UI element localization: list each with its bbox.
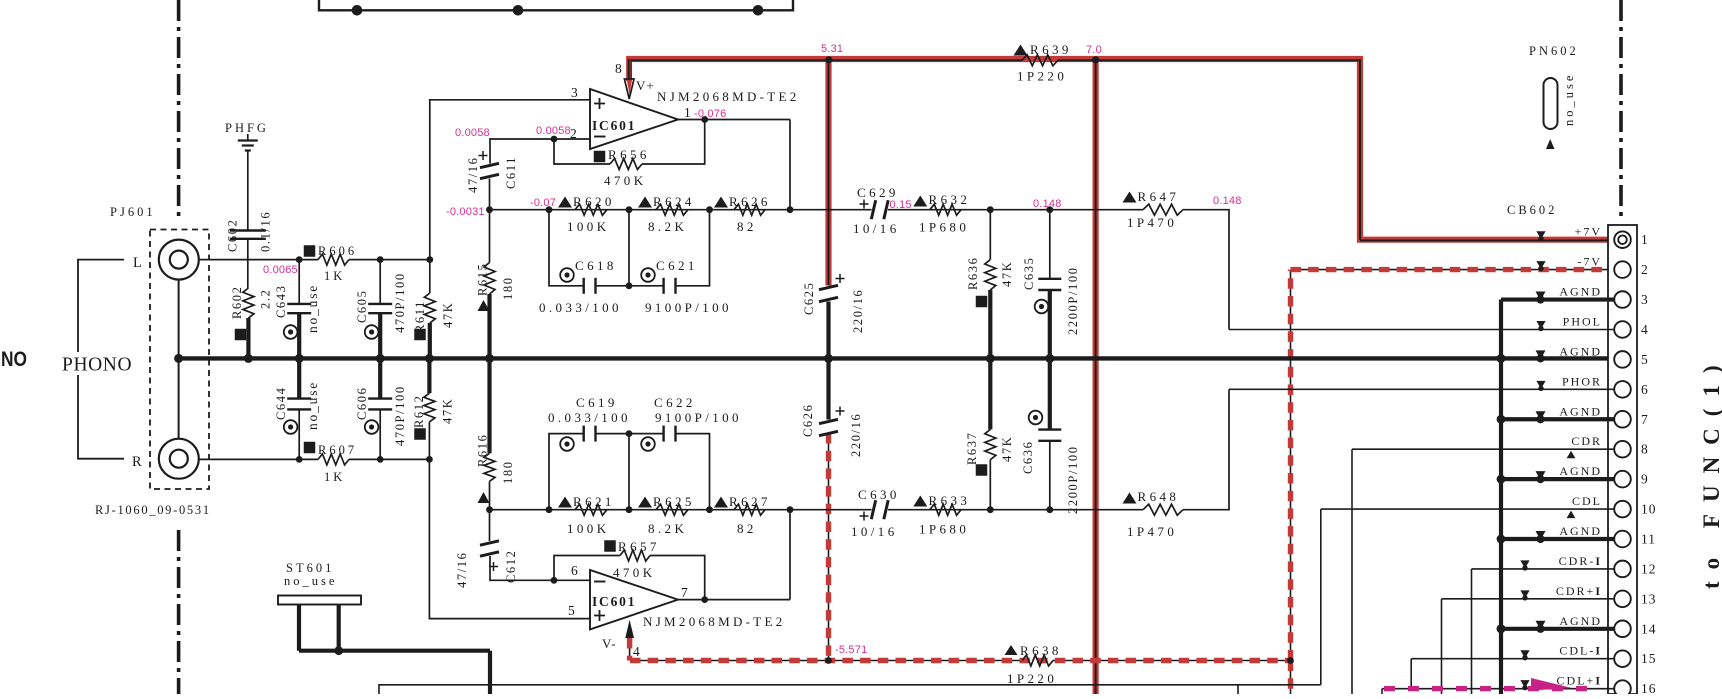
- svg-text:-0.0031: -0.0031: [446, 206, 485, 218]
- svg-text:PHFG: PHFG: [225, 121, 269, 135]
- svg-text:R606: R606: [318, 244, 357, 258]
- svg-text:220/16: 220/16: [849, 413, 863, 457]
- svg-text:0.15: 0.15: [890, 199, 912, 211]
- svg-text:1K: 1K: [324, 470, 345, 484]
- svg-text:V+: V+: [636, 78, 655, 93]
- svg-text:-0.076: -0.076: [694, 108, 726, 120]
- svg-text:10/16: 10/16: [853, 221, 900, 236]
- svg-text:R636: R636: [966, 257, 980, 291]
- svg-text:R657: R657: [618, 539, 660, 554]
- svg-text:-5.571: -5.571: [835, 644, 867, 656]
- svg-text:CDR: CDR: [1571, 434, 1602, 448]
- svg-text:6: 6: [571, 563, 578, 578]
- svg-text:13: 13: [1641, 591, 1657, 606]
- svg-text:C619: C619: [576, 395, 618, 410]
- svg-text:0.148: 0.148: [1213, 195, 1242, 207]
- svg-text:3: 3: [1641, 292, 1649, 307]
- svg-text:470K: 470K: [604, 173, 647, 188]
- svg-text:R632: R632: [929, 192, 971, 207]
- svg-text:C612: C612: [504, 550, 518, 584]
- svg-text:3: 3: [571, 85, 578, 100]
- svg-text:10: 10: [1641, 502, 1657, 517]
- svg-text:7: 7: [681, 585, 688, 600]
- svg-text:CDL+I: CDL+I: [1557, 674, 1602, 688]
- svg-text:C643: C643: [274, 285, 288, 319]
- svg-text:C611: C611: [504, 156, 518, 189]
- svg-text:1K: 1K: [324, 269, 345, 283]
- svg-text:1: 1: [1641, 232, 1649, 247]
- svg-text:AGND: AGND: [1559, 464, 1602, 478]
- svg-text:CDL-I: CDL-I: [1559, 644, 1602, 658]
- svg-text:R602: R602: [230, 286, 244, 320]
- svg-text:100K: 100K: [567, 219, 610, 234]
- svg-text:R612: R612: [412, 395, 426, 429]
- svg-text:R611: R611: [413, 300, 427, 333]
- svg-text:16: 16: [1641, 681, 1657, 694]
- svg-text:NJM2068MD-TE2: NJM2068MD-TE2: [657, 89, 800, 104]
- svg-text:2200P/100: 2200P/100: [1066, 266, 1080, 335]
- svg-text:IC601: IC601: [592, 594, 636, 609]
- svg-text:R616: R616: [476, 434, 490, 468]
- svg-text:C636: C636: [1021, 441, 1035, 475]
- svg-text:180: 180: [501, 276, 515, 300]
- svg-text:RJ-1060_09-0531: RJ-1060_09-0531: [95, 503, 211, 517]
- svg-text:R624: R624: [653, 194, 695, 209]
- svg-text:R656: R656: [608, 147, 650, 162]
- svg-text:8: 8: [1641, 442, 1649, 457]
- svg-text:2.2: 2.2: [259, 289, 273, 309]
- svg-text:ST601: ST601: [286, 561, 334, 575]
- svg-text:7.0: 7.0: [1086, 44, 1102, 56]
- svg-text:1P680: 1P680: [919, 522, 969, 537]
- svg-text:R607: R607: [318, 443, 357, 457]
- svg-text:1P470: 1P470: [1127, 524, 1177, 539]
- svg-text:C602: C602: [226, 219, 240, 253]
- svg-text:15: 15: [1641, 651, 1657, 666]
- svg-text:+7V: +7V: [1575, 225, 1602, 239]
- svg-text:C625: C625: [802, 282, 816, 316]
- svg-text:AGND: AGND: [1559, 404, 1602, 418]
- svg-text:AGND: AGND: [1559, 344, 1602, 358]
- svg-text:no_use: no_use: [1562, 73, 1576, 126]
- svg-text:10/16: 10/16: [851, 524, 898, 539]
- svg-text:0.0065: 0.0065: [263, 264, 298, 276]
- svg-text:C618: C618: [575, 258, 617, 273]
- svg-text:no_use: no_use: [305, 381, 320, 430]
- svg-text:PN602: PN602: [1529, 44, 1579, 58]
- svg-text:R637: R637: [965, 432, 979, 466]
- svg-text:R625: R625: [653, 494, 695, 509]
- svg-text:V-: V-: [602, 636, 617, 651]
- svg-text:47K: 47K: [1000, 436, 1014, 462]
- svg-text:470P/100: 470P/100: [393, 272, 407, 333]
- svg-text:0.1/16: 0.1/16: [259, 211, 273, 252]
- svg-text:R627: R627: [729, 494, 771, 509]
- svg-text:PHOL: PHOL: [1563, 314, 1602, 328]
- svg-text:-7V: -7V: [1577, 255, 1602, 269]
- svg-text:PJ601: PJ601: [110, 205, 156, 219]
- svg-text:82: 82: [737, 219, 757, 234]
- svg-text:R638: R638: [1020, 643, 1062, 658]
- svg-text:4: 4: [1641, 322, 1649, 337]
- svg-text:14: 14: [1641, 621, 1657, 636]
- svg-text:9100P/100: 9100P/100: [645, 300, 732, 315]
- svg-text:R626: R626: [729, 194, 771, 209]
- svg-text:9100P/100: 9100P/100: [655, 410, 742, 425]
- svg-text:47K: 47K: [441, 302, 455, 328]
- svg-text:CDL: CDL: [1572, 494, 1602, 508]
- svg-text:7: 7: [1641, 412, 1649, 427]
- svg-text:IC601: IC601: [592, 118, 636, 133]
- svg-text:1P470: 1P470: [1127, 215, 1177, 230]
- svg-text:1P680: 1P680: [919, 220, 969, 235]
- svg-text:C630: C630: [858, 487, 900, 502]
- svg-text:NO: NO: [1, 347, 27, 371]
- svg-text:to FUNC(1): to FUNC(1): [1699, 353, 1722, 589]
- svg-text:CB602: CB602: [1507, 203, 1557, 217]
- svg-text:R620: R620: [573, 194, 615, 209]
- svg-text:C629: C629: [857, 185, 899, 200]
- svg-text:C622: C622: [654, 395, 696, 410]
- svg-text:C644: C644: [274, 387, 288, 421]
- svg-text:C626: C626: [801, 404, 815, 438]
- svg-text:-0.07: -0.07: [530, 197, 556, 209]
- svg-text:C621: C621: [656, 258, 698, 273]
- svg-text:2200P/100: 2200P/100: [1066, 445, 1080, 514]
- svg-text:1P220: 1P220: [1007, 671, 1057, 686]
- svg-text:PHONO: PHONO: [62, 355, 132, 376]
- svg-text:NJM2068MD-TE2: NJM2068MD-TE2: [643, 614, 786, 629]
- svg-text:C606: C606: [355, 387, 369, 421]
- svg-text:100K: 100K: [567, 521, 610, 536]
- svg-text:R639: R639: [1030, 42, 1072, 57]
- svg-text:AGND: AGND: [1559, 285, 1602, 299]
- svg-text:CDR+I: CDR+I: [1556, 584, 1602, 598]
- svg-text:AGND: AGND: [1559, 614, 1602, 628]
- svg-text:4: 4: [633, 644, 640, 659]
- svg-text:0.0058: 0.0058: [455, 127, 490, 139]
- svg-text:R621: R621: [573, 494, 615, 509]
- svg-text:R: R: [132, 454, 142, 470]
- svg-text:8.2K: 8.2K: [648, 521, 687, 536]
- svg-text:82: 82: [737, 521, 757, 536]
- svg-text:0.033/100: 0.033/100: [548, 410, 631, 425]
- svg-text:9: 9: [1641, 472, 1649, 487]
- svg-text:R615: R615: [476, 263, 490, 297]
- svg-text:1P220: 1P220: [1017, 69, 1067, 84]
- svg-text:180: 180: [501, 460, 515, 484]
- svg-text:5.31: 5.31: [821, 43, 843, 55]
- svg-text:C605: C605: [355, 290, 369, 324]
- svg-text:no_use: no_use: [305, 284, 320, 333]
- svg-text:AGND: AGND: [1559, 524, 1602, 538]
- svg-text:2: 2: [1641, 262, 1649, 277]
- svg-text:R648: R648: [1138, 489, 1180, 504]
- svg-text:0.033/100: 0.033/100: [539, 300, 622, 315]
- svg-text:R633: R633: [929, 493, 971, 508]
- svg-text:1: 1: [684, 105, 691, 120]
- svg-text:0.0058: 0.0058: [536, 125, 571, 137]
- svg-text:470K: 470K: [613, 565, 656, 580]
- svg-text:220/16: 220/16: [851, 289, 865, 333]
- svg-text:11: 11: [1641, 532, 1656, 547]
- svg-text:no_use: no_use: [284, 574, 337, 588]
- svg-text:C635: C635: [1022, 257, 1036, 291]
- svg-text:47K: 47K: [1000, 261, 1014, 287]
- svg-text:0.148: 0.148: [1033, 198, 1062, 210]
- svg-text:47/16: 47/16: [455, 552, 469, 588]
- svg-text:47/16: 47/16: [466, 157, 480, 193]
- svg-text:8: 8: [615, 61, 622, 76]
- svg-text:5: 5: [568, 603, 575, 618]
- svg-text:12: 12: [1641, 561, 1657, 576]
- svg-text:470P/100: 470P/100: [393, 385, 407, 446]
- svg-text:R647: R647: [1138, 189, 1180, 204]
- svg-text:CDR-I: CDR-I: [1559, 554, 1602, 568]
- svg-text:6: 6: [1641, 382, 1649, 397]
- svg-text:L: L: [133, 255, 142, 271]
- svg-text:8.2K: 8.2K: [648, 219, 687, 234]
- svg-text:5: 5: [1641, 352, 1649, 367]
- svg-text:47K: 47K: [441, 398, 455, 424]
- svg-text:PHOR: PHOR: [1562, 374, 1602, 388]
